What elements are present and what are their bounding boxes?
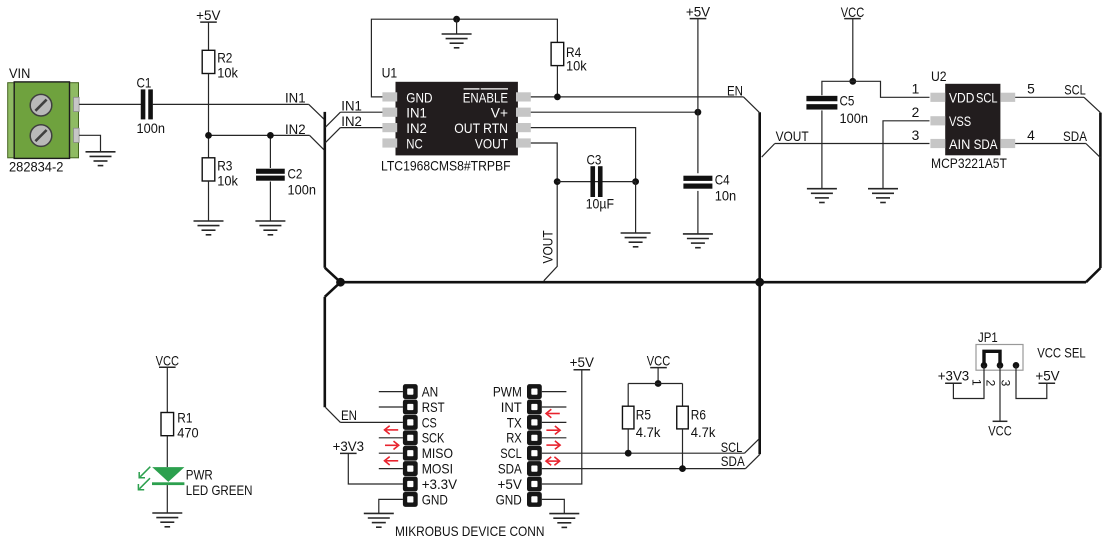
svg-text:IN2: IN2 [341, 114, 362, 129]
svg-text:MCP3221A5T: MCP3221A5T [931, 156, 1007, 171]
svg-text:+3V3: +3V3 [938, 369, 970, 384]
svg-text:10k: 10k [217, 173, 238, 188]
svg-text:PWM: PWM [493, 385, 522, 400]
svg-text:1: 1 [970, 379, 984, 386]
svg-text:JP1: JP1 [978, 330, 998, 345]
svg-text:GND: GND [496, 492, 522, 507]
svg-text:VOUT: VOUT [475, 136, 509, 151]
svg-text:SDA: SDA [974, 137, 999, 152]
svg-text:NC: NC [406, 136, 423, 151]
svg-text:V+: V+ [491, 106, 508, 121]
svg-text:IN2: IN2 [285, 122, 306, 137]
svg-text:10µF: 10µF [586, 197, 614, 212]
svg-text:VCC: VCC [988, 423, 1011, 438]
svg-text:U2: U2 [931, 69, 947, 84]
svg-text:SDA: SDA [1063, 129, 1088, 144]
svg-text:MIKROBUS DEVICE CONN: MIKROBUS DEVICE CONN [395, 524, 545, 539]
svg-text:+5V: +5V [570, 355, 595, 370]
svg-text:4.7k: 4.7k [636, 425, 661, 440]
svg-text:LED GREEN: LED GREEN [186, 483, 253, 498]
svg-text:+5V: +5V [498, 477, 523, 492]
svg-text:C3: C3 [587, 153, 602, 168]
svg-text:MISO: MISO [422, 446, 454, 461]
svg-text:10n: 10n [715, 188, 737, 203]
svg-text:SCL: SCL [1064, 83, 1086, 98]
svg-text:R1: R1 [177, 411, 192, 426]
svg-text:100n: 100n [137, 121, 166, 136]
svg-text:IN1: IN1 [341, 98, 362, 113]
svg-text:EN: EN [341, 408, 357, 423]
svg-text:C2: C2 [288, 167, 303, 182]
svg-text:10k: 10k [566, 59, 587, 74]
svg-text:100n: 100n [840, 111, 869, 126]
svg-text:LTC1968CMS8#TRPBF: LTC1968CMS8#TRPBF [381, 159, 511, 174]
svg-text:VIN: VIN [9, 66, 30, 81]
svg-text:GND: GND [406, 90, 432, 105]
svg-text:3: 3 [912, 128, 920, 143]
svg-text:C4: C4 [715, 172, 730, 187]
svg-text:1: 1 [912, 82, 920, 97]
svg-text:RST: RST [422, 400, 445, 415]
svg-text:C5: C5 [840, 94, 855, 109]
svg-text:GND: GND [422, 492, 448, 507]
svg-text:VOUT: VOUT [541, 230, 556, 264]
svg-text:2: 2 [984, 380, 998, 387]
svg-text:+5V: +5V [196, 8, 221, 23]
svg-text:VOUT: VOUT [776, 129, 810, 144]
svg-text:+3.3V: +3.3V [422, 477, 458, 492]
svg-text:282834-2: 282834-2 [9, 160, 63, 175]
svg-text:IN2: IN2 [406, 121, 427, 136]
svg-text:EN: EN [727, 84, 743, 99]
svg-text:SDA: SDA [721, 454, 746, 469]
svg-text:IN1: IN1 [406, 106, 427, 121]
svg-text:4.7k: 4.7k [691, 425, 716, 440]
svg-text:R6: R6 [691, 408, 706, 423]
svg-text:PWR: PWR [186, 467, 213, 482]
svg-text:+5V: +5V [1035, 369, 1060, 384]
svg-text:AN: AN [422, 385, 439, 400]
svg-text:AIN: AIN [949, 137, 970, 152]
svg-text:R5: R5 [636, 408, 651, 423]
svg-text:+3V3: +3V3 [333, 439, 365, 454]
svg-text:+5V: +5V [686, 5, 711, 20]
svg-text:SCK: SCK [422, 431, 445, 446]
svg-text:470: 470 [177, 425, 199, 440]
svg-text:4: 4 [1027, 128, 1035, 143]
svg-text:VCC: VCC [841, 5, 864, 20]
svg-text:VCC: VCC [156, 353, 179, 368]
svg-text:RX: RX [506, 431, 522, 446]
svg-text:100n: 100n [288, 182, 317, 197]
svg-text:C1: C1 [137, 76, 152, 91]
svg-text:R2: R2 [217, 51, 232, 66]
svg-text:VDD: VDD [949, 91, 974, 106]
svg-text:U1: U1 [382, 66, 398, 81]
svg-text:SCL: SCL [976, 91, 998, 106]
svg-text:R3: R3 [217, 158, 232, 173]
svg-text:10k: 10k [217, 66, 238, 81]
svg-text:TX: TX [507, 415, 522, 430]
svg-text:ENABLE: ENABLE [463, 90, 508, 105]
svg-text:3: 3 [999, 380, 1013, 387]
svg-text:SCL: SCL [500, 446, 522, 461]
svg-text:VSS: VSS [949, 114, 971, 129]
svg-text:SDA: SDA [498, 462, 523, 477]
svg-text:OUT RTN: OUT RTN [454, 121, 508, 136]
svg-text:IN1: IN1 [285, 90, 306, 105]
svg-text:2: 2 [912, 105, 920, 120]
svg-text:MOSI: MOSI [422, 462, 453, 477]
svg-text:VCC: VCC [647, 354, 670, 369]
svg-text:SCL: SCL [721, 440, 743, 455]
svg-text:INT: INT [501, 400, 523, 415]
svg-text:5: 5 [1027, 82, 1035, 97]
svg-text:CS: CS [422, 415, 437, 430]
svg-text:VCC SEL: VCC SEL [1037, 346, 1086, 361]
